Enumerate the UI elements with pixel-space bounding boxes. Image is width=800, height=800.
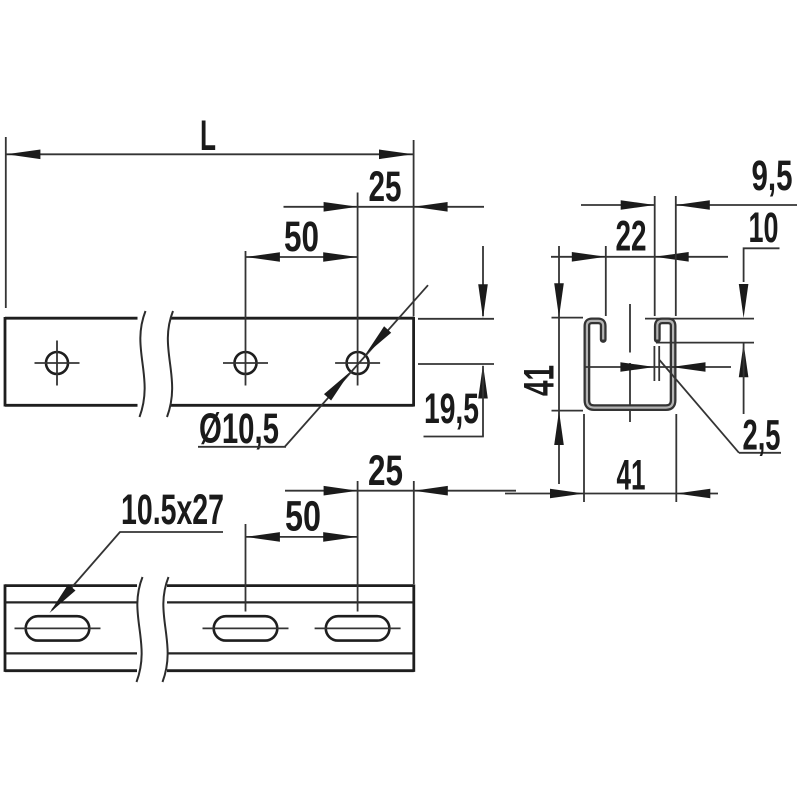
dimension 50 (top view) line [246,256,358,258]
dimension 9,5 line [581,204,655,206]
dimension 25 (top view) arrow right [414,202,448,212]
dimension 22 line [551,256,728,258]
extension line slot 3 [357,481,359,612]
dimension 41 vertical line [558,246,560,484]
dimension 50 (top view) arrow right [323,252,357,262]
slot 3 10.5x27 oval [326,616,390,640]
svg-text:41: 41 [517,365,564,396]
leader Ø10,5 diagonal [285,285,428,446]
leader 10.5x27 arrow [50,584,76,613]
dimension 19,5 arrow up [478,365,488,399]
bottom view upper fold line [5,601,414,603]
extension line slot 2 [245,524,247,612]
dimension 10 arrow down [739,284,749,318]
leader Ø10,5 shelf [198,446,286,448]
svg-text:10: 10 [749,205,779,252]
dimension 19,5 upper line [482,246,484,316]
slot 1 centerline [15,627,101,629]
dimension 19,5 arrow down [478,284,488,318]
svg-text:50: 50 [285,494,321,541]
svg-text:19,5: 19,5 [424,386,479,433]
dimension 41 vertical extension bottom [552,410,584,412]
hole 1 vertical centerline [56,341,58,386]
svg-text:50: 50 [284,214,319,261]
dimension 41 bottom arrow right [676,489,710,499]
extension line hole 3 [357,193,359,386]
bottom view lower fold line [5,652,414,654]
dimension 19,5 extension line bottom [418,363,494,365]
svg-text:25: 25 [368,448,403,495]
dimension 22 arrow right [655,252,689,262]
dimension 10 bent leader [744,248,780,282]
svg-text:L: L [200,113,216,160]
svg-text:2,5: 2,5 [743,413,781,460]
hole 1 Ø10,5 circle [46,352,68,374]
channel profile vertical centerline [629,304,631,353]
dimension 19,5 shelf [424,436,484,438]
dimension 41 bottom arrow left [550,489,584,499]
leader 10.5x27 diagonal [52,532,120,610]
hole 3 Ø10,5 circle [347,352,369,374]
dimension L / 25 shared extension line right [413,140,415,317]
dimension 9,5 arrow right [676,200,710,210]
dimension 25 (bottom) arrow right [414,486,448,496]
slot 1 10.5x27 oval [26,616,90,640]
break line right (top view) [167,311,173,417]
dimension 22 / 9,5 shared extension line [654,196,656,316]
dimension 2,5 arrow left [620,362,654,372]
dimension 2,5 arrow right [672,362,706,372]
svg-text:10.5x27: 10.5x27 [121,487,224,534]
rail side view outline (top view) [5,317,414,407]
svg-text:41: 41 [617,453,646,500]
dimension 10 arrow up [739,343,749,377]
dimension L line [6,153,414,155]
dimension 2,5 line [584,366,731,368]
leader 10.5x27 shelf [120,531,224,533]
svg-text:9,5: 9,5 [752,153,793,200]
extension line hole 2 [245,251,247,386]
dimension 50 (top view) arrow left [246,252,280,262]
dimension 25 (bottom) arrow left [324,486,358,496]
dimension L arrow left [6,150,40,160]
svg-text:25: 25 [369,164,402,211]
dimension 41 bottom line [505,493,718,495]
dimension 41 bottom extension right [675,414,677,502]
dimension 41 vertical arrow bottom [554,411,564,445]
dimension 10 lower tail [743,343,745,414]
dimension 10 extension line bottom [656,342,754,344]
dimension 22 arrow left [572,252,606,262]
dimension 41 vertical extension top [552,317,584,319]
dimension 2,5 extension lines [653,346,655,381]
dimension 10 extension line top [645,318,754,320]
slot 2 centerline [203,627,289,629]
leader Ø10,5 arrow lower [324,372,350,401]
svg-text:22: 22 [616,214,647,261]
dimension 41 bottom extension left [583,414,585,502]
break line left (top view) [140,311,146,417]
dimension 50 (bottom) arrow right [323,532,357,542]
slot 2 10.5x27 oval [214,616,278,640]
dimension 41 vertical arrow top [554,283,564,317]
dimension L extension line left [5,137,7,308]
hole 2 Ø10,5 circle [235,352,257,374]
dimension 50 (bottom) line [246,536,358,538]
hole 3 horizontal centerline [335,362,380,364]
extension line rail right edge (bottom) [413,481,415,584]
dimension 2,5 leader diagonal [660,360,740,453]
hole 2 horizontal centerline [223,362,268,364]
dimension L arrow right [379,150,413,160]
leader Ø10,5 arrow upper [365,326,391,355]
break line right (bottom view) [163,577,169,682]
dimension 25 (bottom) line [285,490,516,492]
break line left (bottom view) [137,577,143,682]
dimension 50 (bottom) arrow left [246,532,280,542]
dimension 2,5 shelf [739,452,781,454]
dimension 9,5 extension line right [675,196,677,316]
dimension 25 (top view) line [284,206,485,208]
slotted rail outline (bottom view) [5,584,414,672]
dimension 19,5 extension line top [418,318,494,320]
dimension 22 extension line left [605,246,607,316]
strut channel profile sheet metal [587,321,673,408]
slot 3 centerline [315,627,401,629]
dimension 19,5 lower line [482,366,484,437]
dimension 25 (top view) arrow left [324,202,358,212]
hole 1 horizontal centerline [35,362,80,364]
dimension 9,5 arrow left [621,200,655,210]
